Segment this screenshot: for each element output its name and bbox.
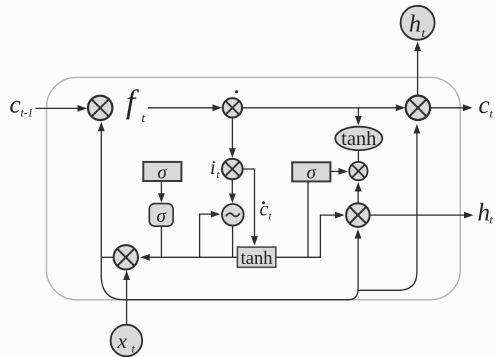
wire N2 to i_t node — [229, 118, 236, 158]
label i_t — [210, 157, 221, 181]
wire S2 to bus row — [160, 226, 162, 257]
sigma box S3 — [292, 162, 330, 183]
svg-text:σ: σ — [157, 206, 167, 227]
tanh box — [237, 247, 275, 269]
svg-text:i: i — [210, 157, 216, 179]
svg-text:tanh: tanh — [341, 128, 376, 150]
dot above N2 — [235, 90, 238, 93]
multiply node N6 — [114, 245, 138, 269]
svg-text:t: t — [422, 25, 426, 40]
wire i_t node to tanh box (c-dot line) — [243, 169, 258, 246]
label c-dot_t — [260, 199, 273, 223]
multiply node N3 — [406, 96, 430, 120]
svg-text:t: t — [142, 110, 146, 125]
svg-text:c: c — [479, 92, 490, 119]
tanh ellipse — [335, 127, 382, 151]
svg-text:h: h — [409, 12, 421, 38]
multiply node N2 — [223, 98, 242, 117]
wire S1 to S2 — [158, 181, 165, 203]
wire N5 to h_t — [370, 212, 474, 219]
wire i_t node to tilde node — [229, 179, 236, 203]
wire N3 to c_t — [430, 104, 472, 111]
cell boundary (outer rounded rectangle) — [47, 77, 461, 299]
label c_{t-1} — [10, 92, 34, 120]
label c_t — [479, 92, 494, 121]
wire N3 to h_t circle — [414, 42, 421, 96]
wire tanh ellipse to N4 — [357, 150, 359, 162]
node h_t output circle — [401, 6, 435, 40]
label h_t — [478, 200, 494, 227]
multiply node N4 — [349, 162, 367, 180]
svg-text:σ: σ — [157, 162, 167, 183]
wire x_t to N6 — [123, 271, 130, 325]
wire S3 to bus row — [307, 181, 309, 257]
wire N5 to N4 — [355, 182, 362, 203]
wire S3 to N4 — [330, 168, 348, 175]
wire N2 to N3 — [242, 104, 405, 111]
wire N6 stub to recurrent bus — [101, 256, 113, 258]
label f_t — [126, 85, 146, 126]
tilde node (candidate activation) — [222, 204, 244, 226]
wire bus row to tilde node (L with arrow) — [200, 211, 221, 258]
svg-text:σ: σ — [307, 163, 317, 184]
multiply node N1 — [88, 96, 112, 120]
sigma box S1 — [143, 162, 181, 183]
svg-text:x: x — [117, 329, 128, 353]
svg-text:t-1: t-1 — [21, 108, 34, 120]
wire tanh row: to N6 (left arrow) and L up into N5 — [140, 212, 344, 261]
multiply node N5 — [346, 203, 370, 227]
node x_t input circle — [111, 325, 143, 357]
wire f_t to N2 — [148, 104, 222, 111]
svg-text:h: h — [478, 200, 491, 227]
wire tilde node to bus row — [232, 226, 234, 258]
svg-text:c: c — [10, 92, 21, 119]
wire recurrent bus branch to N3 — [358, 124, 420, 290]
multiply node I (i_t gate) — [222, 159, 243, 180]
svg-text:tanh: tanh — [241, 249, 273, 269]
wire recurrent bus bottom loop to N5 — [101, 229, 361, 300]
wire c_{t-1} to N1 — [36, 105, 88, 112]
wire cell line to tanh ellipse — [355, 108, 362, 126]
wire recurrent bus up to N1 — [98, 122, 105, 277]
sigma box S2 (rounded) — [149, 204, 173, 227]
